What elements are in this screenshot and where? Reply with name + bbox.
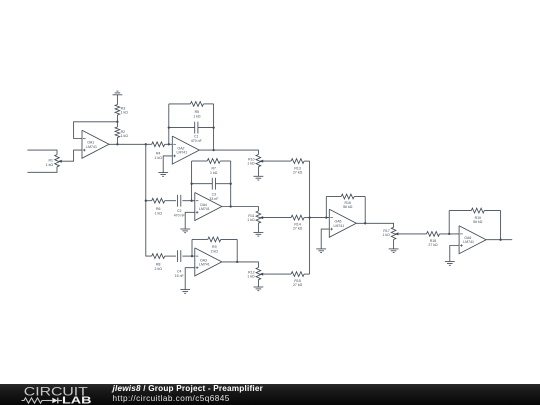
- node C3 left junction: [190, 183, 192, 185]
- potentiometer R11: [247, 211, 263, 223]
- ground R11: [254, 232, 264, 236]
- svg-text:R1: R1: [49, 158, 54, 162]
- resistor R8: [152, 254, 165, 271]
- wire R14 to mix bus: [304, 217, 310, 219]
- ground R17: [389, 249, 399, 253]
- ground flipped above R3: [113, 91, 123, 95]
- svg-text:1 kΩ: 1 kΩ: [247, 275, 255, 279]
- op-amp OA5: [329, 209, 356, 237]
- resistor R14: [291, 215, 304, 230]
- wire C2 to OA4: [182, 200, 194, 202]
- wire R13 to mix bus: [304, 160, 310, 162]
- wire R17 wiper to R18: [397, 233, 426, 235]
- wire OA4 output to R11: [222, 207, 259, 212]
- wire OA3 feedback right branch: [236, 239, 238, 262]
- wire flipped ground to R3: [116, 95, 118, 105]
- ground R12: [254, 287, 264, 291]
- resistor R13: [291, 159, 304, 175]
- op-amp OA4: [195, 193, 222, 221]
- node mix bus junction: [308, 216, 310, 218]
- node C1 right junction: [212, 126, 214, 128]
- svg-text:2 kΩ: 2 kΩ: [211, 250, 219, 254]
- wire input stub bottom: [27, 167, 57, 173]
- svg-text:2 kΩ: 2 kΩ: [155, 267, 163, 271]
- svg-text:1 kΩ: 1 kΩ: [193, 115, 201, 119]
- svg-text:56 kΩ: 56 kΩ: [343, 205, 353, 209]
- wire R10 wiper to R13: [262, 160, 291, 162]
- wire input stub top: [27, 150, 57, 155]
- ground OA5: [316, 249, 326, 253]
- wire R8 to C4: [165, 255, 176, 257]
- wire R12 to ground: [257, 280, 259, 287]
- wire R2 to OA1 output: [116, 138, 118, 145]
- wire OA3 noninverting to ground: [185, 268, 195, 290]
- node OA4 inverting junction: [190, 200, 192, 202]
- capacitor C4: [175, 250, 184, 278]
- wire OA5 output to R17: [356, 223, 393, 227]
- wire OA6 output stub: [486, 239, 512, 241]
- resistor R16: [341, 194, 354, 209]
- ground OA2: [158, 173, 168, 177]
- svg-text:LM741: LM741: [334, 224, 345, 228]
- resistor R18: [427, 232, 440, 247]
- node OA2 inverting junction: [168, 143, 170, 145]
- wire OA4 noninverting to ground: [185, 212, 195, 229]
- wire OA5 noninverting to ground: [321, 229, 329, 249]
- logo wordmark LAB: [62, 396, 92, 405]
- svg-text:56 kΩ: 56 kΩ: [473, 220, 483, 224]
- wire C4 to OA3: [182, 255, 194, 257]
- svg-text:R8: R8: [156, 263, 161, 267]
- svg-text:http://circuitlab.com/c5q6845: http://circuitlab.com/c5q6845: [113, 394, 230, 403]
- wire R12 wiper to R15: [262, 273, 291, 275]
- svg-text:LM741: LM741: [199, 262, 210, 266]
- node OA1 output junction: [116, 143, 118, 145]
- resistor R9: [208, 237, 221, 254]
- svg-text:27 kΩ: 27 kΩ: [293, 226, 303, 230]
- svg-text:33 nF: 33 nF: [209, 197, 218, 201]
- svg-text:1 kΩ: 1 kΩ: [247, 161, 255, 165]
- wire OA1 inverting input feedback: [74, 122, 118, 139]
- wire OA2 feedback top: [169, 103, 214, 105]
- op-amp OA1: [82, 130, 109, 158]
- wire OA3 feedback left branch: [191, 239, 193, 256]
- svg-text:C4: C4: [177, 270, 182, 274]
- wire R10 to ground: [257, 167, 259, 177]
- svg-text:1 kΩ: 1 kΩ: [121, 111, 129, 115]
- resistor R5: [190, 102, 203, 119]
- svg-text:LM741: LM741: [463, 240, 474, 244]
- ground R10: [254, 176, 264, 180]
- node OA2 output junction: [212, 149, 214, 151]
- svg-text:1 kΩ: 1 kΩ: [155, 156, 163, 160]
- wire OA1 output to R4: [109, 143, 152, 145]
- wire mix bus to OA5: [310, 217, 330, 219]
- resistor R15: [291, 272, 304, 287]
- potentiometer R17: [383, 227, 399, 239]
- node OA3 output junction: [236, 261, 238, 263]
- capacitor C1: [191, 122, 202, 143]
- op-amp OA2: [172, 136, 199, 164]
- svg-text:1 kΩ: 1 kΩ: [247, 218, 255, 222]
- op-amp OA6: [459, 226, 486, 254]
- wire OA4 feedback top: [192, 160, 231, 162]
- wire main bus: [146, 144, 152, 256]
- footer bar: [0, 384, 540, 405]
- wire OA3 output to R12: [222, 262, 259, 268]
- wire OA6 feedback top: [449, 210, 500, 212]
- wire R11 wiper to R14: [262, 217, 291, 219]
- svg-text:1 kΩ: 1 kΩ: [210, 171, 218, 175]
- svg-text:27 kΩ: 27 kΩ: [293, 170, 303, 174]
- node OA3 inverting junction: [191, 255, 193, 257]
- svg-text:1 kΩ: 1 kΩ: [121, 134, 129, 138]
- wire OA5 feedback left branch: [325, 197, 327, 218]
- potentiometer R10: [247, 155, 263, 167]
- wire OA6 noninverting to ground: [450, 246, 459, 262]
- potentiometer R1: [46, 155, 62, 167]
- wire R17 to ground: [393, 240, 395, 249]
- node OA6 inverting junction: [448, 233, 450, 235]
- resistor R19: [471, 208, 484, 224]
- node C3 right junction: [230, 183, 232, 185]
- svg-text:LM741: LM741: [86, 145, 97, 149]
- svg-text:1 kΩ: 1 kΩ: [155, 212, 163, 216]
- node OA5 inverting junction: [325, 216, 327, 218]
- resistor R2: [115, 127, 128, 138]
- svg-text:470 nF: 470 nF: [174, 214, 185, 218]
- logo diode: [52, 398, 62, 404]
- wire R3 to R2: [116, 115, 118, 127]
- wire OA2 output to R10: [199, 150, 258, 154]
- svg-text:R6: R6: [156, 207, 161, 211]
- ground OA4: [180, 229, 190, 233]
- footer url text: [113, 394, 230, 403]
- logo wire to diode: [46, 400, 52, 402]
- svg-text:1 kΩ: 1 kΩ: [46, 163, 54, 167]
- node C1 left junction: [168, 126, 170, 128]
- wire C3 row: [192, 183, 231, 185]
- resistor R7: [207, 159, 220, 175]
- wire OA4 feedback right branch: [230, 161, 232, 207]
- svg-text:C2: C2: [177, 209, 182, 213]
- wire OA2 feedback right branch: [213, 104, 215, 150]
- wire OA4 feedback left branch: [191, 161, 193, 201]
- svg-text:1 kΩ: 1 kΩ: [383, 233, 391, 237]
- capacitor C2: [174, 195, 185, 218]
- ground OA3: [180, 290, 190, 294]
- resistor R3: [115, 105, 128, 116]
- wire mix bus: [309, 161, 311, 274]
- svg-text:LM741: LM741: [199, 207, 210, 211]
- svg-text:27 kΩ: 27 kΩ: [293, 283, 303, 287]
- wire R11 to ground: [257, 223, 259, 232]
- op-amp OA3: [195, 248, 222, 276]
- wire R6 to C2: [165, 200, 176, 202]
- resistor R4: [152, 142, 165, 160]
- capacitor C3: [209, 178, 218, 201]
- footer title text: [112, 384, 264, 393]
- node bus tap channel 2: [145, 200, 147, 202]
- svg-text:jlewis8 / Group Project - Prea: jlewis8 / Group Project - Preamplifier: [112, 384, 264, 393]
- wire R18 to OA6: [440, 233, 460, 235]
- wire OA6 feedback left branch: [448, 211, 450, 234]
- logo resistor zigzag: [22, 398, 47, 403]
- wire R15 to mix bus: [304, 273, 310, 275]
- wire OA2 feedback left branch: [168, 104, 170, 144]
- svg-text:R4: R4: [156, 151, 161, 155]
- wire R1 wiper to OA1 noninverting input: [61, 150, 82, 161]
- wire OA5 feedback top: [326, 196, 365, 198]
- node R3-R2 junction: [116, 121, 118, 123]
- wire bus to R6: [146, 200, 152, 202]
- wire C1 row: [169, 127, 214, 129]
- svg-text:LM741: LM741: [177, 151, 188, 155]
- node OA6 output junction: [499, 239, 501, 241]
- svg-text:15 nF: 15 nF: [175, 274, 184, 278]
- svg-text:LAB: LAB: [62, 396, 92, 405]
- wire OA3 feedback top: [192, 238, 237, 240]
- svg-text:470 nF: 470 nF: [191, 139, 202, 143]
- resistor R6: [152, 198, 165, 215]
- node bus tap channel 1: [145, 143, 147, 145]
- potentiometer R12: [247, 268, 263, 280]
- svg-text:27 kΩ: 27 kΩ: [428, 243, 438, 247]
- wire OA5 feedback right branch: [364, 197, 366, 224]
- node OA5 output junction: [364, 222, 366, 224]
- wire R4 to OA2 inverting input: [165, 143, 173, 145]
- CircuitLab logo wordmark CIRCUIT: [24, 385, 88, 398]
- node OA4 output junction: [230, 205, 232, 207]
- wire OA2 noninverting to ground: [163, 156, 172, 173]
- ground OA6: [445, 262, 455, 266]
- wire OA6 feedback right branch: [500, 211, 502, 240]
